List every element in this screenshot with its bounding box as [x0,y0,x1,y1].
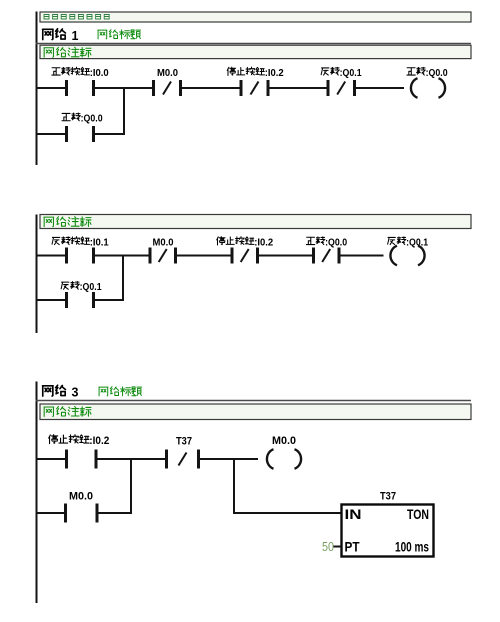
svg-text::Q0.1: :Q0.1 [340,67,362,79]
wire rung1 [36,87,67,89]
timer feed junction wire [233,458,235,513]
svg-text::Q0.1: :Q0.1 [80,281,102,293]
comment text 网络注释 [44,217,54,227]
svg-text:IN: IN [345,506,362,522]
label 反转按钮:I0.1 [52,237,60,244]
clipped comment box of previous network [40,12,471,22]
svg-text:100 ms: 100 ms [395,539,429,555]
network 1 title text 网络标题 [98,30,107,39]
svg-text:PT: PT [345,539,360,555]
svg-text:50: 50 [322,540,334,554]
coil 反转:Q0.1 [390,246,397,265]
svg-text:M0.0: M0.0 [157,67,178,79]
comment text 网络注释 [44,407,54,417]
branch label 反转:Q0.1 [61,282,69,289]
contact 正转:Q0.0 [65,126,68,142]
contact M0.0 [64,504,67,523]
contact 正转:Q0.0 (NC) [312,248,315,264]
contact 反转:Q0.1 (NC) [327,80,330,96]
network 3 comment box [40,404,471,420]
PT pin stub [334,546,343,548]
contact 停止按钮:I0.2 (NC) [240,80,243,96]
branch junction wire [123,87,125,134]
label 停止按钮:I0.2 [49,435,58,444]
svg-text::I0.2: :I0.2 [89,435,109,447]
contact 反转按钮:I0.1 [65,248,68,264]
svg-text:M0.0: M0.0 [69,490,93,502]
branch wire [36,133,67,135]
label 反转:Q0.1 [388,237,396,244]
svg-text:M0.0: M0.0 [153,236,174,248]
timer box T37 TON [342,505,434,557]
wire rung3 [36,458,67,460]
svg-text::Q0.0: :Q0.0 [325,236,347,248]
svg-text:1: 1 [72,29,79,43]
svg-text::I0.2: :I0.2 [265,67,284,79]
svg-text::I0.1: :I0.1 [90,236,109,248]
network 1 title [43,29,54,39]
contact 停止按钮:I0.2 (NC) [231,248,234,264]
label 反转:Q0.1 [321,68,329,75]
contact 停止按钮:I0.2 [65,450,68,469]
network 3 title [43,386,54,396]
label 正转:Q0.0 [407,68,415,75]
svg-text:3: 3 [72,386,79,400]
separator line [36,400,472,402]
svg-text:T37: T37 [176,435,192,447]
branch wire [36,512,66,514]
branch junction wire [122,255,124,301]
wire to timer IN [233,512,342,514]
tiny clipped green comment text [44,15,49,20]
branch junction wire [130,458,132,513]
network 1 left margin / power rail [36,12,38,166]
svg-text::Q0.1: :Q0.1 [406,236,428,248]
network 1 comment box [40,45,471,58]
label 正转:Q0.0 [306,237,314,244]
contact M0.0 (NC) [152,80,155,96]
contact M0.0 (NC) [149,248,152,264]
contact 正转按钮:I0.0 [65,80,68,96]
separator line [36,43,472,45]
network 3 title text 网络标题 [99,387,108,396]
branch label 正转:Q0.0 [62,113,70,120]
svg-text:M0.0: M0.0 [272,435,296,447]
coil 正转:Q0.0 [411,78,418,97]
svg-text:T37: T37 [380,490,396,502]
network 2 comment box [40,215,471,229]
comment text 网络注释 [44,48,54,58]
network 2 left margin / power rail [36,215,38,334]
contact T37 (NC) [165,450,168,469]
contact 反转:Q0.1 [65,292,68,308]
branch wire [36,299,67,301]
svg-text::I0.2: :I0.2 [254,236,273,248]
coil M0.0 [267,449,274,468]
label 停止按钮:I0.2 [217,237,225,245]
network 3 left margin / power rail [36,382,38,604]
svg-text::Q0.0: :Q0.0 [81,113,103,125]
svg-text::Q0.0: :Q0.0 [426,67,448,79]
label 正转按钮:I0.0 [52,68,60,75]
label 停止按钮:I0.2 [227,67,235,75]
wire rung2 [36,255,67,257]
svg-text:TON: TON [407,506,429,522]
svg-text::I0.0: :I0.0 [90,67,109,79]
